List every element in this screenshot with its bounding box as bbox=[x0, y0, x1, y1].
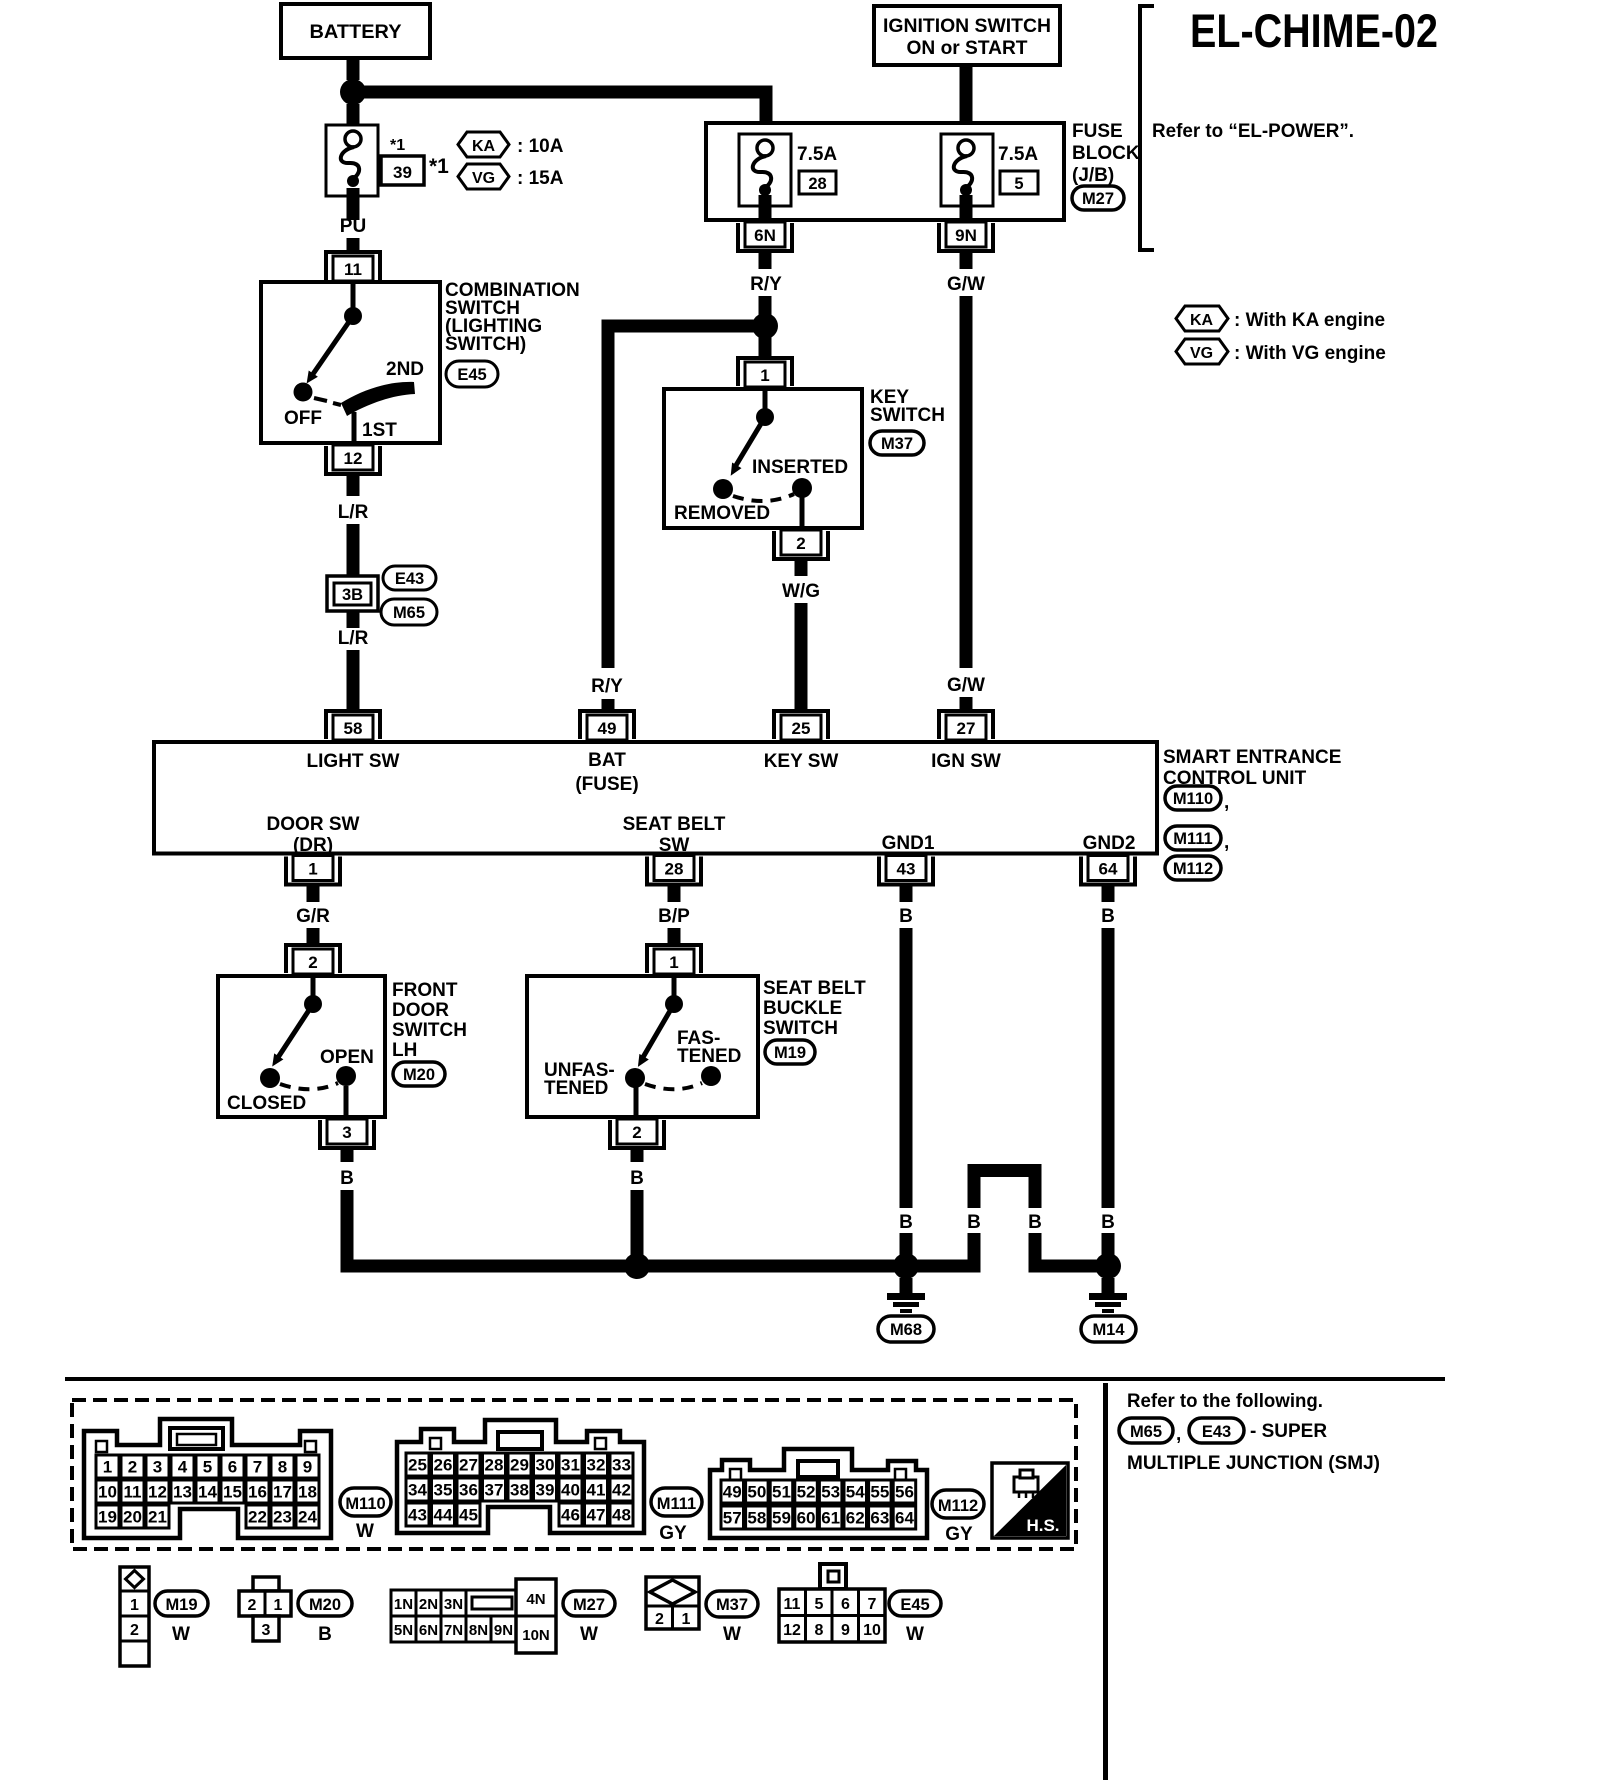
svg-text:63: 63 bbox=[870, 1509, 889, 1528]
svg-text:G/W: G/W bbox=[947, 675, 985, 696]
svg-text:M19: M19 bbox=[165, 1596, 197, 1614]
svg-text:60: 60 bbox=[797, 1509, 816, 1528]
svg-text:M111: M111 bbox=[657, 1495, 696, 1513]
svg-text:6: 6 bbox=[841, 1596, 850, 1613]
svg-text:5: 5 bbox=[203, 1458, 212, 1477]
svg-text:M19: M19 bbox=[774, 1044, 806, 1062]
svg-text:M27: M27 bbox=[1082, 190, 1114, 208]
svg-text:B: B bbox=[340, 1168, 354, 1189]
svg-text:: With KA engine: : With KA engine bbox=[1234, 310, 1385, 331]
svg-text:R/Y: R/Y bbox=[750, 274, 782, 295]
svg-text:KA: KA bbox=[1190, 312, 1214, 329]
svg-text:LH: LH bbox=[392, 1040, 417, 1061]
svg-text:9: 9 bbox=[841, 1622, 850, 1639]
svg-text:53: 53 bbox=[821, 1483, 840, 1502]
svg-text:B: B bbox=[1028, 1212, 1042, 1233]
svg-text:SEAT BELT: SEAT BELT bbox=[623, 814, 726, 835]
svg-text:M65: M65 bbox=[393, 604, 425, 622]
svg-text:GY: GY bbox=[659, 1523, 687, 1544]
svg-text:9N: 9N bbox=[494, 1622, 513, 1639]
svg-text:W: W bbox=[906, 1624, 924, 1645]
svg-text:E45: E45 bbox=[457, 366, 486, 384]
svg-text:CLOSED: CLOSED bbox=[227, 1093, 306, 1114]
svg-text:43: 43 bbox=[408, 1506, 427, 1525]
svg-text:46: 46 bbox=[561, 1506, 580, 1525]
svg-text:M20: M20 bbox=[403, 1066, 435, 1084]
svg-text:27: 27 bbox=[459, 1456, 478, 1475]
svg-text:21: 21 bbox=[148, 1508, 167, 1527]
svg-text:17: 17 bbox=[273, 1483, 292, 1502]
svg-text:56: 56 bbox=[895, 1483, 914, 1502]
svg-text:M110: M110 bbox=[345, 1495, 385, 1513]
svg-text:50: 50 bbox=[747, 1483, 766, 1502]
svg-text:DOOR: DOOR bbox=[392, 1000, 449, 1021]
svg-text:2: 2 bbox=[655, 1611, 664, 1628]
svg-text:INSERTED: INSERTED bbox=[752, 457, 848, 478]
svg-text:M112: M112 bbox=[938, 1497, 978, 1515]
svg-text:43: 43 bbox=[897, 860, 916, 879]
svg-text:19: 19 bbox=[98, 1508, 117, 1527]
svg-text:,: , bbox=[1224, 832, 1229, 853]
svg-text:29: 29 bbox=[510, 1456, 529, 1475]
svg-text:7.5A: 7.5A bbox=[998, 144, 1038, 165]
svg-text:12: 12 bbox=[148, 1483, 167, 1502]
svg-text:SWITCH): SWITCH) bbox=[445, 334, 526, 355]
svg-text:- SUPER: - SUPER bbox=[1250, 1421, 1327, 1442]
svg-text:1: 1 bbox=[130, 1597, 139, 1614]
svg-text:1N: 1N bbox=[394, 1596, 413, 1613]
svg-text:SW: SW bbox=[659, 835, 690, 856]
svg-text:28: 28 bbox=[485, 1456, 504, 1475]
svg-text:34: 34 bbox=[408, 1481, 427, 1500]
svg-text:2N: 2N bbox=[419, 1596, 438, 1613]
svg-text:15: 15 bbox=[223, 1483, 242, 1502]
svg-text:(J/B): (J/B) bbox=[1072, 165, 1114, 186]
svg-text:22: 22 bbox=[248, 1508, 267, 1527]
svg-text:4: 4 bbox=[178, 1458, 188, 1477]
svg-text:23: 23 bbox=[273, 1508, 292, 1527]
svg-text:39: 39 bbox=[536, 1481, 555, 1500]
svg-text:W: W bbox=[172, 1624, 190, 1645]
svg-text:25: 25 bbox=[792, 719, 811, 738]
svg-text:M111: M111 bbox=[1173, 830, 1212, 848]
svg-text:35: 35 bbox=[434, 1481, 453, 1500]
svg-text:2: 2 bbox=[796, 534, 805, 553]
svg-text:2ND: 2ND bbox=[386, 359, 424, 380]
svg-text:R/Y: R/Y bbox=[591, 676, 623, 697]
svg-text:25: 25 bbox=[408, 1456, 427, 1475]
svg-text:*1: *1 bbox=[429, 155, 449, 178]
svg-text:4N: 4N bbox=[526, 1591, 545, 1608]
svg-text:Refer to the following.: Refer to the following. bbox=[1127, 1391, 1323, 1412]
svg-text:61: 61 bbox=[821, 1509, 840, 1528]
svg-text:27: 27 bbox=[957, 719, 976, 738]
svg-text:58: 58 bbox=[747, 1509, 766, 1528]
svg-text:(DR): (DR) bbox=[293, 835, 333, 856]
svg-text:B: B bbox=[1101, 1212, 1115, 1233]
svg-text:14: 14 bbox=[198, 1483, 217, 1502]
svg-text:W: W bbox=[723, 1624, 741, 1645]
svg-text:SMART ENTRANCE: SMART ENTRANCE bbox=[1163, 747, 1341, 768]
svg-text:BAT: BAT bbox=[588, 750, 626, 771]
svg-text:62: 62 bbox=[846, 1509, 865, 1528]
svg-text:5: 5 bbox=[815, 1596, 824, 1613]
svg-text:L/R: L/R bbox=[338, 628, 369, 649]
svg-text:2: 2 bbox=[248, 1597, 257, 1614]
svg-text:11: 11 bbox=[124, 1483, 142, 1502]
svg-text:*1: *1 bbox=[390, 137, 405, 154]
svg-text:L/R: L/R bbox=[338, 502, 369, 523]
svg-text:36: 36 bbox=[459, 1481, 478, 1500]
svg-text:IGNITION SWITCH: IGNITION SWITCH bbox=[883, 16, 1051, 37]
svg-text:B/P: B/P bbox=[658, 906, 690, 927]
svg-text:M14: M14 bbox=[1092, 1321, 1125, 1339]
svg-text:KA: KA bbox=[472, 138, 496, 155]
svg-text:BATTERY: BATTERY bbox=[310, 22, 402, 43]
svg-text:8: 8 bbox=[278, 1458, 287, 1477]
svg-text:DOOR SW: DOOR SW bbox=[267, 814, 360, 835]
svg-text:B: B bbox=[899, 906, 913, 927]
svg-text:BUCKLE: BUCKLE bbox=[763, 998, 842, 1019]
svg-text:W: W bbox=[580, 1624, 598, 1645]
svg-text:B: B bbox=[967, 1212, 981, 1233]
svg-text:47: 47 bbox=[587, 1506, 606, 1525]
svg-text:30: 30 bbox=[536, 1456, 555, 1475]
svg-text:1: 1 bbox=[760, 366, 769, 385]
svg-text:ON or START: ON or START bbox=[907, 38, 1028, 59]
svg-text:49: 49 bbox=[723, 1483, 742, 1502]
svg-text:7N: 7N bbox=[444, 1622, 463, 1639]
svg-text:45: 45 bbox=[459, 1506, 478, 1525]
svg-text:M27: M27 bbox=[573, 1596, 605, 1614]
svg-text:Refer to “EL-POWER”.: Refer to “EL-POWER”. bbox=[1152, 121, 1354, 142]
svg-text:G/W: G/W bbox=[947, 274, 985, 295]
svg-text:IGN SW: IGN SW bbox=[931, 751, 1001, 772]
svg-text:: With VG engine: : With VG engine bbox=[1234, 343, 1386, 364]
svg-text:BLOCK: BLOCK bbox=[1072, 143, 1140, 164]
svg-text:SWITCH: SWITCH bbox=[392, 1020, 467, 1041]
svg-text:3N: 3N bbox=[444, 1596, 463, 1613]
svg-text:58: 58 bbox=[344, 719, 363, 738]
svg-text:FUSE: FUSE bbox=[1072, 121, 1123, 142]
svg-text:1: 1 bbox=[103, 1458, 112, 1477]
svg-text:12: 12 bbox=[783, 1622, 801, 1639]
svg-text:E43: E43 bbox=[395, 570, 424, 588]
svg-text:2: 2 bbox=[128, 1458, 137, 1477]
svg-text:59: 59 bbox=[772, 1509, 791, 1528]
svg-text:28: 28 bbox=[665, 860, 684, 879]
svg-text:OFF: OFF bbox=[284, 408, 322, 429]
svg-text:11: 11 bbox=[784, 1596, 801, 1613]
svg-text:G/R: G/R bbox=[296, 906, 330, 927]
svg-text:VG: VG bbox=[1190, 345, 1213, 362]
svg-text:EL-CHIME-02: EL-CHIME-02 bbox=[1190, 4, 1438, 57]
svg-text:GND2: GND2 bbox=[1083, 833, 1136, 854]
svg-text:9: 9 bbox=[303, 1458, 312, 1477]
svg-text:9N: 9N bbox=[955, 226, 977, 245]
svg-text:KEY SW: KEY SW bbox=[764, 751, 839, 772]
svg-text:7: 7 bbox=[868, 1596, 877, 1613]
svg-text:6N: 6N bbox=[754, 226, 776, 245]
svg-text:5: 5 bbox=[1014, 175, 1023, 193]
svg-text:M68: M68 bbox=[890, 1321, 922, 1339]
svg-text:REMOVED: REMOVED bbox=[674, 503, 770, 524]
svg-text:: 15A: : 15A bbox=[517, 168, 564, 189]
svg-text:1: 1 bbox=[669, 953, 678, 972]
svg-text:41: 41 bbox=[587, 1481, 606, 1500]
svg-text:42: 42 bbox=[612, 1481, 631, 1500]
svg-text:8N: 8N bbox=[469, 1622, 488, 1639]
svg-text:PU: PU bbox=[340, 216, 366, 237]
svg-text:VG: VG bbox=[472, 170, 495, 187]
svg-text:55: 55 bbox=[870, 1483, 889, 1502]
svg-text:32: 32 bbox=[587, 1456, 606, 1475]
svg-text:31: 31 bbox=[561, 1456, 580, 1475]
svg-text:E43: E43 bbox=[1202, 1423, 1231, 1441]
svg-text:GND1: GND1 bbox=[882, 833, 935, 854]
svg-text:13: 13 bbox=[173, 1483, 192, 1502]
svg-text:SWITCH: SWITCH bbox=[763, 1018, 838, 1039]
svg-text:38: 38 bbox=[510, 1481, 529, 1500]
svg-text:40: 40 bbox=[561, 1481, 580, 1500]
svg-text:E45: E45 bbox=[900, 1596, 929, 1614]
svg-text:M37: M37 bbox=[881, 435, 913, 453]
svg-text:OPEN: OPEN bbox=[320, 1047, 374, 1068]
svg-text:FRONT: FRONT bbox=[392, 980, 458, 1001]
svg-text:10: 10 bbox=[863, 1622, 881, 1639]
svg-text:37: 37 bbox=[485, 1481, 504, 1500]
svg-text:6: 6 bbox=[228, 1458, 237, 1477]
svg-text:MULTIPLE JUNCTION (SMJ): MULTIPLE JUNCTION (SMJ) bbox=[1127, 1453, 1380, 1474]
svg-text:SWITCH: SWITCH bbox=[870, 405, 945, 426]
svg-text:1: 1 bbox=[308, 860, 317, 879]
svg-text:49: 49 bbox=[598, 719, 617, 738]
svg-text:M65: M65 bbox=[1130, 1423, 1162, 1441]
svg-text:M20: M20 bbox=[309, 1596, 341, 1614]
svg-text:26: 26 bbox=[434, 1456, 453, 1475]
svg-text:,: , bbox=[1224, 792, 1229, 813]
svg-text:TENED: TENED bbox=[544, 1078, 608, 1099]
svg-text:H.S.: H.S. bbox=[1026, 1516, 1059, 1535]
svg-text:1: 1 bbox=[274, 1597, 283, 1614]
svg-text:33: 33 bbox=[612, 1456, 631, 1475]
svg-text:28: 28 bbox=[808, 175, 826, 193]
svg-text:7.5A: 7.5A bbox=[797, 144, 837, 165]
svg-text:M110: M110 bbox=[1173, 790, 1213, 808]
svg-text:TENED: TENED bbox=[677, 1046, 741, 1067]
svg-text:2: 2 bbox=[632, 1123, 641, 1142]
svg-text:3B: 3B bbox=[342, 586, 363, 604]
svg-text:,: , bbox=[1176, 1424, 1181, 1445]
svg-text:B: B bbox=[1101, 906, 1115, 927]
svg-text:1ST: 1ST bbox=[362, 420, 397, 441]
svg-text:11: 11 bbox=[344, 260, 362, 279]
svg-text:8: 8 bbox=[815, 1622, 824, 1639]
svg-text:(FUSE): (FUSE) bbox=[575, 774, 638, 795]
svg-text:20: 20 bbox=[123, 1508, 142, 1527]
svg-text:10: 10 bbox=[98, 1483, 117, 1502]
svg-text:3: 3 bbox=[262, 1622, 271, 1639]
svg-text:: 10A: : 10A bbox=[517, 136, 564, 157]
svg-text:39: 39 bbox=[393, 163, 412, 182]
svg-text:48: 48 bbox=[612, 1506, 631, 1525]
svg-text:12: 12 bbox=[344, 449, 363, 468]
svg-text:M37: M37 bbox=[716, 1596, 748, 1614]
svg-text:B: B bbox=[318, 1624, 332, 1645]
svg-text:52: 52 bbox=[797, 1483, 816, 1502]
svg-text:W/G: W/G bbox=[782, 581, 820, 602]
svg-text:16: 16 bbox=[248, 1483, 267, 1502]
svg-text:57: 57 bbox=[723, 1509, 742, 1528]
svg-text:GY: GY bbox=[945, 1524, 973, 1545]
svg-text:LIGHT SW: LIGHT SW bbox=[307, 751, 400, 772]
svg-text:B: B bbox=[899, 1212, 913, 1233]
svg-text:51: 51 bbox=[772, 1483, 791, 1502]
svg-text:64: 64 bbox=[895, 1509, 914, 1528]
svg-text:2: 2 bbox=[308, 953, 317, 972]
svg-text:10N: 10N bbox=[522, 1627, 550, 1644]
svg-text:7: 7 bbox=[253, 1458, 262, 1477]
svg-text:M112: M112 bbox=[1173, 860, 1213, 878]
svg-text:24: 24 bbox=[298, 1508, 317, 1527]
svg-text:1: 1 bbox=[682, 1611, 691, 1628]
svg-text:54: 54 bbox=[846, 1483, 865, 1502]
svg-text:SEAT BELT: SEAT BELT bbox=[763, 978, 866, 999]
svg-text:64: 64 bbox=[1099, 860, 1118, 879]
svg-text:18: 18 bbox=[298, 1483, 317, 1502]
svg-text:6N: 6N bbox=[419, 1622, 438, 1639]
svg-text:3: 3 bbox=[153, 1458, 162, 1477]
svg-text:3: 3 bbox=[342, 1123, 351, 1142]
svg-text:2: 2 bbox=[130, 1622, 139, 1639]
svg-text:B: B bbox=[630, 1168, 644, 1189]
svg-text:44: 44 bbox=[434, 1506, 453, 1525]
svg-text:5N: 5N bbox=[394, 1622, 413, 1639]
svg-text:W: W bbox=[356, 1521, 374, 1542]
